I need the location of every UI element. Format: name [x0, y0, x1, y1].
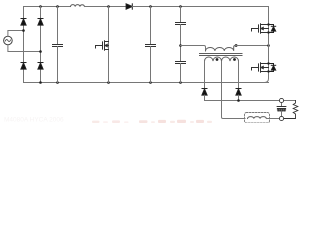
transformer T1 secondary winding B — [222, 57, 239, 61]
diode D2 (bridge, top right, pointing up) — [38, 19, 43, 26]
wire secondary left leg (crosses bottom bus) — [204, 61, 206, 88]
wire secondary right leg (crosses bottom bus) — [238, 61, 240, 88]
wire bridge left leg x=23 — [23, 7, 25, 83]
wire D7 anode down to output bus — [238, 95, 240, 100]
transformer T1 core — [200, 54, 243, 56]
wire AC source top lead to left leg — [8, 31, 24, 37]
diode D5 (boost diode, pointing right) — [126, 4, 132, 9]
transformer T1 secondary winding A — [205, 57, 222, 61]
dashed box around L2 — [245, 113, 270, 124]
node Q1 drain-diode junction — [267, 23, 269, 25]
inductor L2 (output filter choke) — [248, 117, 267, 119]
capacitor C1 (input filter, x=57) — [57, 7, 59, 45]
diode D1 (bridge, top left, pointing up) — [21, 19, 26, 26]
junction node bottom bus x=40 — [39, 81, 42, 84]
diode D6 (output rectifier left, pointing up) — [202, 89, 207, 96]
junction node on top bus at x=40 — [39, 5, 42, 8]
transistor Q1 (upper half-bridge MOSFET) — [252, 24, 269, 34]
node AC bottom tap — [39, 50, 42, 53]
node D7 junction on output bus — [237, 99, 240, 102]
wire top bus middle segment — [85, 6, 127, 8]
node secondary A dot — [216, 58, 219, 61]
diode D9 (Q2 body diode) — [269, 64, 276, 72]
junction node bottom bus x=108 (Q3 source) — [107, 81, 110, 84]
wire output top bus y=100 — [205, 100, 296, 102]
transformer T1 primary winding — [206, 46, 236, 51]
node primary dot — [235, 44, 238, 47]
capacitor C3 (half-bridge divider upper, x=180) — [180, 7, 182, 23]
node AC top tap — [22, 29, 25, 32]
diode D8 (Q1 body diode) — [269, 25, 276, 33]
wire top bus left segment — [24, 6, 71, 8]
resistor R1 (load) — [284, 101, 298, 119]
wire center tap down and right to filter — [222, 61, 246, 118]
inductor L1 (boost inductor) — [71, 5, 85, 7]
junction node bottom bus x=150 — [149, 81, 152, 84]
svg-text:M4080A HYCA 2006: M4080A HYCA 2006 — [4, 117, 64, 124]
diode D7 (output rectifier right, pointing up) — [236, 89, 241, 96]
node Q2 drain-diode junction — [267, 62, 269, 64]
junction node bottom bus x=57 — [56, 81, 59, 84]
node secondary B dot — [233, 58, 236, 61]
wire D6 anode down to output bus — [204, 95, 206, 100]
watermark faint red text specks — [4, 117, 212, 124]
junction node on top bus at x=180 — [179, 5, 182, 8]
wire top bus right segment to Q1 drain corner — [132, 6, 268, 8]
node half-bridge midpoint — [267, 44, 270, 47]
wire primary right end to half-bridge midpoint — [235, 45, 268, 47]
node divider midpoint — [179, 44, 182, 47]
transistor Q3 (boost MOSFET) — [108, 7, 110, 83]
diode D4 (bridge, bottom right, pointing up) — [38, 63, 43, 70]
node Q1 source-diode junction — [267, 31, 269, 33]
wire AC source bottom lead to right leg (crosses x=23) — [8, 45, 41, 52]
node output terminal - (open circle) — [279, 116, 283, 120]
node output terminal + (open circle) — [279, 98, 283, 102]
wire bottom bus y=82 — [24, 82, 269, 84]
transistor Q2 (lower half-bridge MOSFET) — [252, 63, 269, 73]
capacitor C2 (bulk cap, x=150) — [150, 7, 152, 45]
junction node bottom bus x=180 — [179, 81, 182, 84]
capacitor C4 (half-bridge divider lower, x=180) — [176, 62, 186, 64]
wire bridge right leg x=40 — [40, 7, 42, 83]
wire choke output to bottom terminal — [266, 118, 279, 120]
junction node on top bus at x=108 (Q3 drain) — [107, 5, 110, 8]
wire Q1/Q2 drain-source vertical — [265, 7, 269, 83]
wire divider midpoint segment — [180, 25, 182, 62]
node Q2 source-diode junction — [267, 70, 269, 72]
junction node on top bus at x=150 — [149, 5, 152, 8]
diode D3 (bridge, bottom left, pointing up) — [21, 63, 26, 70]
wire divider midpoint to transformer primary — [181, 46, 206, 51]
junction node on top bus at x=57 — [56, 5, 59, 8]
AC source V1 — [4, 36, 13, 45]
capacitor C5 (output electrolytic) — [281, 103, 283, 107]
